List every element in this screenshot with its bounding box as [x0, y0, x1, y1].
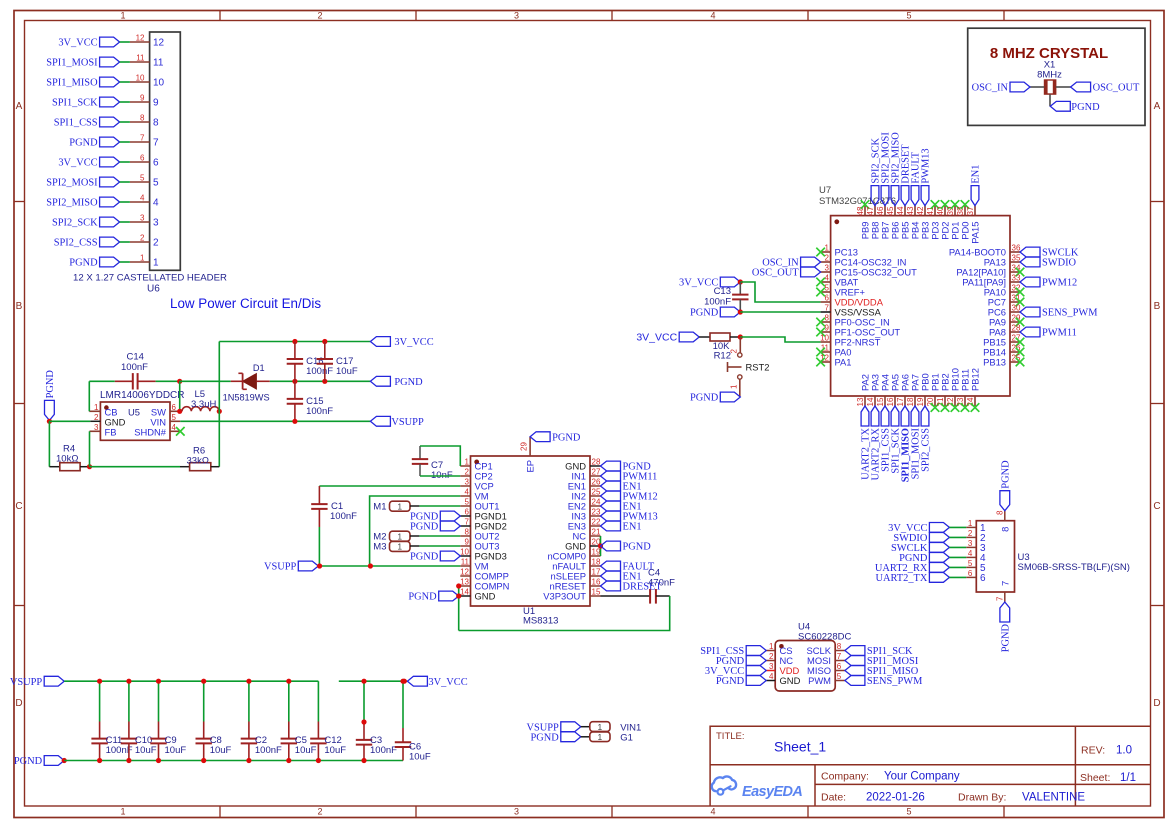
svg-text:TITLE:: TITLE: — [716, 731, 745, 742]
U7 pin 18 stub (PA7) — [914, 396, 916, 406]
svg-text:PWM12: PWM12 — [1042, 278, 1077, 289]
svg-text:4: 4 — [153, 198, 159, 209]
svg-text:1: 1 — [120, 807, 125, 817]
svg-text:RST2: RST2 — [746, 362, 770, 373]
svg-text:2: 2 — [94, 413, 99, 422]
svg-text:2: 2 — [465, 468, 470, 477]
net flag 3V_VCC (VDD supply) — [720, 277, 740, 287]
U1 pin 10 stub (PGND3) — [460, 555, 470, 557]
svg-text:2: 2 — [730, 349, 739, 354]
no-connect X on U7 pin 38 — [961, 200, 970, 209]
net flag PGND (C13) — [720, 307, 740, 317]
svg-text:EasyEDA: EasyEDA — [742, 784, 802, 800]
svg-text:VSUPP: VSUPP — [391, 417, 424, 428]
capacitor C15 — [294, 381, 296, 399]
svg-text:10uF: 10uF — [165, 745, 187, 756]
U4 pin 1 stub (CS) — [766, 650, 775, 652]
svg-text:6: 6 — [825, 294, 830, 303]
svg-text:A: A — [16, 101, 23, 112]
wire SPI1_SCK to U6 pin 9 — [120, 101, 130, 103]
wire PGND to U6 pin 7 — [120, 141, 130, 143]
no-connect X on U7 pin 40 — [941, 200, 950, 209]
junction C16 bottom / C15 top — [292, 379, 297, 384]
svg-text:16: 16 — [592, 578, 601, 587]
no-connect X on U7 pin 9 — [816, 328, 825, 337]
svg-text:7: 7 — [825, 304, 830, 313]
net flag SWCLK (U7 pin 36) — [1020, 247, 1040, 257]
net flag PGND (U1 EP) — [530, 432, 550, 442]
title block logo cell divider — [814, 765, 816, 806]
svg-text:OSC_IN: OSC_IN — [972, 83, 1009, 94]
svg-text:100nF: 100nF — [306, 406, 333, 417]
U7 pin 43 stub (PB4) — [914, 206, 916, 216]
svg-text:8: 8 — [999, 527, 1010, 532]
wire R4 right to junction — [80, 466, 89, 468]
U6 pin 3 stub — [130, 221, 150, 223]
svg-text:SPI2_CSS: SPI2_CSS — [921, 428, 932, 472]
svg-text:8: 8 — [140, 114, 145, 123]
svg-text:SPI1_SCK: SPI1_SCK — [52, 98, 98, 109]
svg-text:PWM: PWM — [808, 675, 831, 686]
resistor R6 33k — [190, 463, 211, 471]
wire X1 case to PGND — [1049, 94, 1051, 106]
svg-text:4: 4 — [710, 11, 715, 21]
capacitor C11 — [99, 681, 101, 721]
U7 pin 22 stub (PB10) — [954, 396, 956, 406]
svg-text:12: 12 — [136, 34, 145, 43]
U4 pin 5 stub (PWM) — [835, 680, 845, 682]
svg-text:GND: GND — [475, 591, 496, 602]
capacitor C5 — [288, 681, 290, 721]
connector VIN1 — [590, 722, 610, 732]
net flag SPI1_CSS (U6 pin 8) — [100, 117, 120, 127]
svg-text:PGND: PGND — [1071, 102, 1100, 113]
net flag SPI2_CSS (U7 pin 19) — [921, 406, 929, 426]
svg-text:3: 3 — [94, 423, 99, 432]
junction at U5 SW pin — [177, 409, 182, 414]
U4 pin 1 marker dot — [779, 644, 784, 649]
net flag PGND (U6 pin 7) — [100, 137, 120, 147]
svg-text:17: 17 — [592, 568, 601, 577]
U1 pin 18 stub (nFAULT) — [590, 565, 601, 567]
net flag PGND (power rail) — [370, 376, 390, 386]
svg-text:14: 14 — [460, 588, 469, 597]
wire PGND rail (power) — [295, 380, 371, 382]
inductor L5 3.3uH — [182, 407, 219, 412]
svg-text:33kΩ: 33kΩ — [187, 456, 209, 467]
U1 pin 9 stub (OUT3) — [460, 545, 470, 547]
capacitor C2 — [248, 681, 250, 721]
wire PGND to U6 pin 1 — [120, 261, 130, 263]
title block row line 1 — [710, 764, 1150, 766]
svg-text:44: 44 — [896, 206, 905, 215]
U1 pin 8 stub (OUT2) — [460, 535, 470, 537]
U7 pin 37 stub (PA15) — [974, 206, 976, 216]
junction C8 bottom — [201, 758, 206, 763]
U7 pin 44 stub (PB5) — [904, 206, 906, 216]
resistor R4 10k — [60, 463, 80, 471]
junction C1 bottom on VSUPP rail — [317, 563, 322, 568]
wire SW node vertical — [179, 381, 181, 411]
svg-text:11: 11 — [153, 58, 164, 69]
net flag OSC_IN (crystal) — [1010, 82, 1030, 92]
junction C3 top rail — [361, 679, 366, 684]
svg-text:5: 5 — [140, 174, 145, 183]
net flag PWM12 (U7 pin 33) — [1020, 277, 1040, 287]
svg-text:PGND: PGND — [531, 732, 560, 743]
svg-text:PGND: PGND — [690, 393, 719, 404]
no-connect X on U7 pin 1 — [816, 248, 825, 257]
svg-text:25: 25 — [592, 488, 601, 497]
svg-text:10uF: 10uF — [135, 745, 157, 756]
svg-text:SPI1_CSS: SPI1_CSS — [54, 118, 98, 129]
svg-text:G1: G1 — [620, 732, 633, 743]
capacitor C10 — [128, 681, 130, 721]
svg-text:42: 42 — [916, 206, 925, 215]
net flag SPI2_SCK (U7 pin 47) — [871, 186, 879, 206]
svg-text:9: 9 — [140, 94, 145, 103]
wire OSC_IN to X1 — [1030, 86, 1044, 88]
wire SPI1_MOSI to U6 pin 11 — [120, 61, 130, 63]
frame row ticks left — [14, 201, 25, 203]
svg-text:6: 6 — [980, 573, 986, 584]
svg-text:2: 2 — [317, 807, 322, 817]
net flag PGND (crystal) — [1050, 101, 1070, 111]
junction at PGND/C13 — [738, 309, 743, 314]
svg-text:U7: U7 — [819, 185, 831, 196]
svg-text:LMR14006YDDCR: LMR14006YDDCR — [100, 390, 184, 401]
net flag 3V_VCC (U6 pin 6) — [100, 157, 120, 167]
svg-text:PGND: PGND — [716, 676, 745, 687]
net flag PWM13 (U1 pin 23) — [601, 511, 621, 521]
svg-text:D: D — [1153, 698, 1160, 709]
net flag PGND vertical (U5 GND) — [45, 400, 55, 420]
frame row ticks right — [1151, 201, 1165, 203]
wire FB node to R6 — [90, 466, 181, 468]
svg-text:VSUPP: VSUPP — [10, 677, 43, 688]
net flag PGND (U1 PGND2 pin 7) — [440, 521, 460, 531]
svg-text:5: 5 — [825, 284, 830, 293]
svg-text:B: B — [16, 301, 23, 312]
svg-text:2: 2 — [317, 11, 322, 21]
svg-text:1: 1 — [140, 254, 145, 263]
svg-text:SM06B-SRSS-TB(LF)(SN): SM06B-SRSS-TB(LF)(SN) — [1018, 562, 1130, 573]
svg-text:3: 3 — [465, 478, 470, 487]
U1 pin 20 stub (GND) — [590, 545, 601, 547]
svg-text:7: 7 — [999, 581, 1010, 586]
net flag EN1 (U1 pin 22) — [601, 521, 621, 531]
svg-text:30: 30 — [1012, 304, 1021, 313]
svg-text:40: 40 — [936, 206, 945, 215]
switch RST2 — [739, 337, 741, 353]
U6 pin 10 stub — [130, 81, 150, 83]
U3 pin 6 stub — [966, 576, 976, 578]
U5 pin 4 stub — [170, 430, 180, 432]
U7 pin 4 stub (VBAT) — [821, 281, 831, 283]
junction C15 bottom — [292, 419, 297, 424]
U3 pin 2 stub — [966, 536, 976, 538]
wire PGND to U3 pin 4 — [949, 556, 966, 558]
crystal X1 body — [1044, 80, 1056, 95]
svg-text:100nF: 100nF — [330, 511, 357, 522]
wire C7 bottom to U1 CP2 pin 2 — [420, 475, 460, 477]
junction C12 bottom — [316, 758, 321, 763]
svg-text:28: 28 — [1012, 324, 1021, 333]
U3 pin 8 stub (top) — [1004, 511, 1006, 521]
U4 pin 3 stub (VDD) — [766, 670, 775, 672]
U7 pin 40 stub (PD2) — [944, 206, 946, 216]
no-connect X on U7 pin 23 — [961, 403, 970, 412]
svg-text:U5: U5 — [128, 406, 140, 417]
U1 pin 25 stub (IN2) — [590, 495, 601, 497]
junction C2 bottom — [246, 758, 251, 763]
net flag 3V_VCC (reset pullup) — [679, 332, 699, 342]
U7 pin 24 stub (PB12) — [974, 396, 976, 406]
frame column ticks bottom — [219, 806, 221, 818]
svg-text:37: 37 — [966, 206, 975, 215]
no-connect X on U7 pin 22 — [951, 403, 960, 412]
wire R12 to junction — [730, 336, 740, 338]
capacitor C12 — [317, 681, 319, 721]
connector M3 — [390, 541, 411, 551]
junction C8 top — [201, 679, 206, 684]
U7 pin 5 stub (VREF+) — [821, 291, 831, 293]
junction C5 bottom — [286, 758, 291, 763]
svg-text:2022-01-26: 2022-01-26 — [866, 792, 925, 804]
svg-text:1: 1 — [769, 642, 774, 651]
svg-text:10uF: 10uF — [324, 745, 346, 756]
svg-text:Your Company: Your Company — [884, 771, 960, 783]
U7 pin 10 stub (PF2-NRST) — [821, 341, 831, 343]
U7 pin 16 stub (PA5) — [894, 396, 896, 406]
svg-text:9: 9 — [825, 324, 830, 333]
svg-text:7: 7 — [465, 518, 470, 527]
svg-text:PGND: PGND — [408, 592, 437, 603]
svg-text:1: 1 — [94, 403, 99, 412]
diode D1 1N5819WS — [180, 380, 231, 382]
wire M3 to U1 OUT3 pin 9 — [410, 545, 419, 547]
svg-text:10uF: 10uF — [409, 752, 431, 763]
wire PGND to U5 GND pin 2 — [49, 420, 90, 422]
svg-text:11: 11 — [136, 54, 145, 63]
svg-text:3: 3 — [140, 214, 145, 223]
svg-text:47: 47 — [866, 206, 875, 215]
crystal section box — [968, 28, 1145, 125]
svg-text:6: 6 — [172, 403, 177, 412]
U1 pin 13 stub (COMPN) — [460, 585, 470, 587]
no-connect X on U7 pin 26 — [1016, 348, 1025, 357]
svg-text:3: 3 — [825, 264, 830, 273]
junction C17 top — [322, 339, 327, 344]
svg-text:Sheet:: Sheet: — [1080, 772, 1110, 784]
net flag SWDIO (U7 pin 35) — [1020, 257, 1040, 267]
U6 pin 11 stub — [130, 61, 150, 63]
U1 pin 15 stub (V3P3OUT) — [590, 595, 601, 597]
junction at L5 output / 3V_VCC node — [217, 409, 222, 414]
junction C10 top — [126, 679, 131, 684]
svg-text:5: 5 — [837, 672, 842, 681]
svg-text:FB: FB — [105, 426, 117, 437]
svg-text:PGND: PGND — [14, 756, 43, 767]
wire M1 to U1 OUT1 pin 5 — [410, 505, 419, 507]
net flag SPI1_CSS (U4 pin 1) — [746, 646, 766, 656]
net flag UART2_RX (U3 pin 5) — [929, 563, 949, 573]
svg-text:SPI2_MISO: SPI2_MISO — [46, 198, 98, 209]
capacitor C6 — [402, 681, 404, 728]
svg-text:4: 4 — [710, 807, 715, 817]
svg-text:PA1: PA1 — [835, 357, 852, 368]
svg-text:SPI1_MOSI: SPI1_MOSI — [46, 58, 98, 69]
junction U1 pin 13 COMPN — [456, 583, 461, 588]
svg-text:OSC_OUT: OSC_OUT — [752, 268, 799, 279]
no-connect X on U7 pin 8 — [816, 318, 825, 327]
U5 pin 3 stub — [90, 430, 101, 432]
net flag UART2_RX (U7 pin 14) — [871, 406, 879, 426]
net flag SPI1_SCK (U6 pin 9) — [100, 97, 120, 107]
svg-text:12 X 1.27 CASTELLATED HEADER: 12 X 1.27 CASTELLATED HEADER — [73, 273, 227, 284]
svg-text:1: 1 — [825, 244, 830, 253]
svg-text:7: 7 — [837, 652, 842, 661]
svg-text:PGND: PGND — [410, 552, 439, 563]
net flag EN1 (U7 pin 37) — [971, 186, 979, 206]
net flag SPI1_MISO (U7 pin 17) — [901, 406, 909, 426]
U1 pin 21 stub (NC) — [590, 535, 601, 537]
net flag SPI1_MOSI (U4 pin 7) — [845, 656, 865, 666]
svg-text:SPI2_CSS: SPI2_CSS — [54, 238, 98, 249]
no-connect X on U7 pin 12 — [816, 358, 825, 367]
wire SPI1_MISO to U6 pin 10 — [120, 81, 130, 83]
net flag VSUPP (VIN1) — [561, 722, 581, 732]
U7 pin 46 stub (PB7) — [884, 206, 886, 216]
svg-text:12: 12 — [153, 38, 165, 49]
no-connect X on U7 pin 21 — [941, 403, 950, 412]
U1 EP pin 29 stub — [529, 437, 531, 456]
svg-text:4: 4 — [968, 549, 973, 558]
net flag OSC_OUT (U7 pin 3) — [801, 267, 821, 277]
U1 pin 23 stub (IN3) — [590, 515, 601, 517]
net flag SPI1_SCK (U7 pin 16) — [891, 406, 899, 426]
wire VSUPP bank rail — [64, 680, 318, 682]
wire 3V_VCC rail (power) — [219, 341, 370, 343]
wire X1 to OSC_OUT — [1056, 86, 1071, 88]
junction C9 top — [156, 679, 161, 684]
svg-text:2: 2 — [825, 254, 830, 263]
svg-text:100nF: 100nF — [306, 366, 333, 377]
no-connect X on U7 pin 5 — [816, 288, 825, 297]
wire UART2_RX to U3 pin 5 — [949, 566, 966, 568]
U6 pin 8 stub — [130, 121, 150, 123]
svg-text:C14: C14 — [127, 352, 144, 363]
svg-text:36: 36 — [1012, 244, 1021, 253]
svg-text:PGND: PGND — [394, 377, 423, 388]
svg-text:1: 1 — [968, 519, 973, 528]
regulator U5 body LMR14006YDDCR — [100, 402, 170, 440]
net flag PGND (U3 pin 8) — [1000, 491, 1010, 511]
svg-text:5: 5 — [465, 498, 470, 507]
wire NC/GND/nCOMP0 tie — [600, 536, 602, 556]
U7 pin 20 stub (PB1) — [934, 396, 936, 406]
U6 pin 2 stub — [130, 241, 150, 243]
title block row line 2 — [815, 783, 1151, 785]
U1 pin 1 marker dot — [474, 460, 479, 465]
wire SWDIO to U3 pin 2 — [949, 536, 966, 538]
svg-text:26: 26 — [592, 478, 601, 487]
svg-text:8: 8 — [825, 314, 830, 323]
wire U1 VM pin 4 branch — [370, 496, 461, 566]
U1 pin 14 stub (GND) — [460, 595, 470, 597]
U7 pin 14 stub (PA3) — [874, 396, 876, 406]
svg-text:EN1: EN1 — [623, 522, 642, 533]
U1 pin 19 stub (nCOMP0) — [590, 555, 601, 557]
U7 pin 15 stub (PA4) — [884, 396, 886, 406]
net flag SPI1_CSS (U7 pin 15) — [881, 406, 889, 426]
net flag PGND (U3 pin 7) — [1000, 602, 1010, 622]
U7 pin 27 stub (PB15) — [1010, 341, 1020, 343]
wire SPI2_SCK to U6 pin 3 — [120, 221, 130, 223]
junction SW node at C14 right — [177, 379, 182, 384]
U4 pin 2 stub (NC) — [766, 660, 775, 662]
no-connect X on U7 pin 39 — [951, 200, 960, 209]
wire SPI2_MOSI to U6 pin 5 — [120, 181, 130, 183]
net flag PGND (U1 GND pin 14) — [439, 591, 459, 601]
svg-text:SHDN#: SHDN# — [134, 426, 167, 437]
U7 pin 11 stub (PA0) — [821, 351, 831, 353]
svg-text:1: 1 — [397, 542, 402, 552]
net flag OSC_IN (U7 pin 2) — [801, 257, 821, 267]
wire to R4 left — [49, 466, 59, 468]
net flag SPI1_MISO (U4 pin 6) — [845, 666, 865, 676]
U1 pin 22 stub (EN3) — [590, 525, 601, 527]
svg-text:100nF: 100nF — [704, 297, 731, 308]
junction C5 top — [286, 679, 291, 684]
svg-text:3V_VCC: 3V_VCC — [58, 38, 97, 49]
no-connect X on U7 pin 24 — [971, 403, 980, 412]
svg-text:10: 10 — [460, 548, 469, 557]
U7 pin 29 stub (PA9) — [1010, 321, 1020, 323]
capacitor C7 (charge pump) — [419, 446, 421, 459]
wire junction to U7 PF2-NRST pin 10 — [740, 337, 820, 342]
svg-text:UART2_TX: UART2_TX — [875, 573, 927, 584]
net flag SPI2_SCK (U6 pin 3) — [100, 217, 120, 227]
svg-text:SWDIO: SWDIO — [1042, 258, 1077, 269]
svg-text:15: 15 — [876, 397, 885, 406]
svg-text:Date:: Date: — [821, 792, 846, 804]
svg-text:PB12: PB12 — [970, 368, 981, 391]
svg-text:PWM11: PWM11 — [1042, 328, 1077, 339]
wire 3V_VCC to U6 pin 6 — [120, 161, 130, 163]
net flag UART2_TX (U3 pin 6) — [929, 573, 949, 583]
svg-text:38: 38 — [956, 206, 965, 215]
svg-text:3: 3 — [153, 218, 159, 229]
svg-text:1: 1 — [397, 532, 402, 542]
capacitor C8 — [203, 681, 205, 721]
junction C10 bottom — [126, 758, 131, 763]
svg-text:1.0: 1.0 — [1116, 745, 1132, 757]
wire PGND to U7 VSS/VSSA pin 7 — [740, 311, 820, 313]
net flag SPI1_MISO (U6 pin 10) — [100, 77, 120, 87]
svg-text:10uF: 10uF — [336, 366, 358, 377]
U1 pin 26 stub (EN1) — [590, 485, 601, 487]
svg-text:PGND: PGND — [623, 462, 652, 473]
U3 pin 7 stub (bottom) — [1004, 592, 1006, 602]
U4 pin 6 stub (MISO) — [835, 670, 845, 672]
junction C11 top — [97, 679, 102, 684]
junction C6 top — [400, 679, 405, 684]
U7 pin 21 stub (PB2) — [944, 396, 946, 406]
svg-text:B: B — [1154, 301, 1161, 312]
svg-text:7: 7 — [140, 134, 145, 143]
wire SPI1_CSS to U6 pin 8 — [120, 121, 130, 123]
